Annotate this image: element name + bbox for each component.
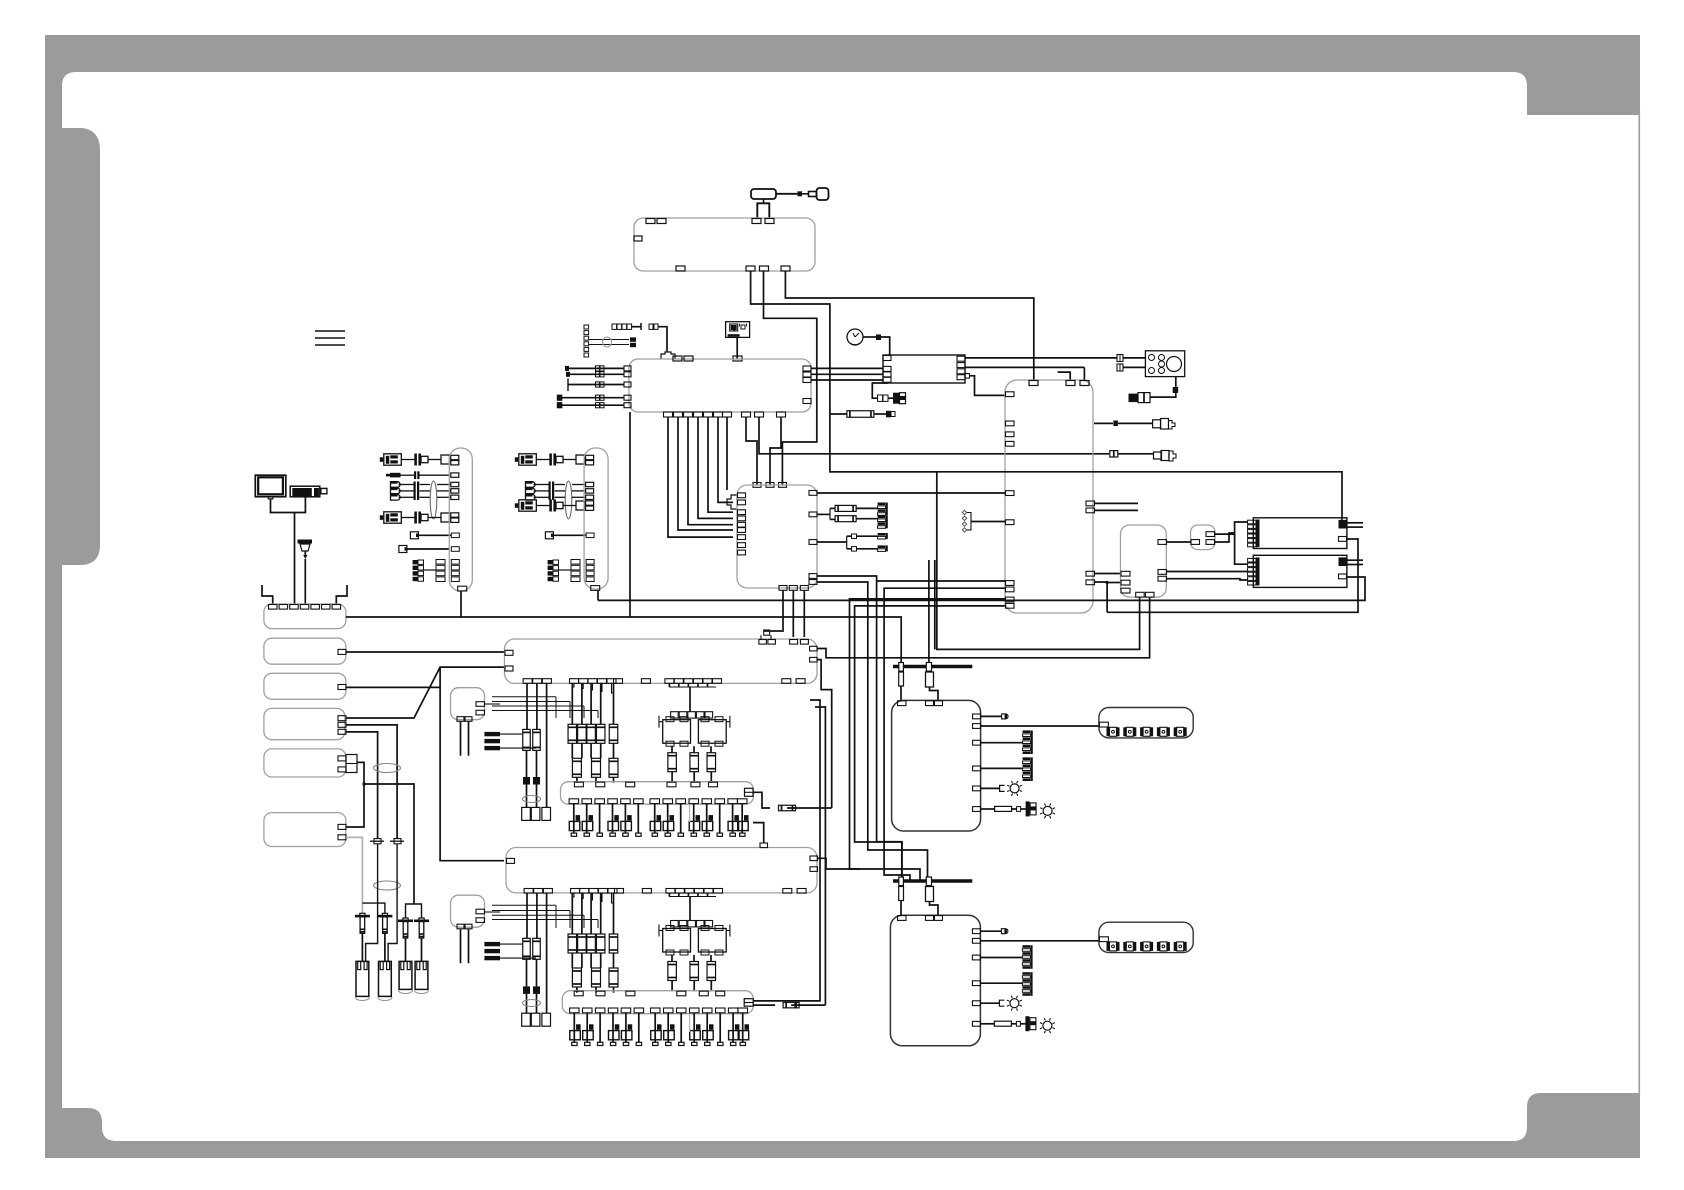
wire B2 to B4 left (718, 417, 733, 502)
pin B6 top-c (790, 640, 798, 645)
pin B4 bottom-2 (789, 586, 797, 591)
pin B1 bottom-b (746, 266, 755, 271)
wire B3 right to B5-1 (1094, 573, 1120, 575)
wire to lamp2 row (981, 808, 995, 810)
black sq (1113, 421, 1118, 427)
pin B14 right (745, 788, 754, 796)
plug J2 r3-3 (526, 495, 536, 501)
foot (740, 833, 745, 836)
plug J1 r3-2 (391, 488, 401, 494)
second stage (572, 758, 581, 777)
inline fuse b (394, 839, 401, 844)
pins B7 bottom (524, 889, 533, 894)
foot (598, 1042, 603, 1045)
bars J1 r3 (414, 482, 416, 501)
B13 legs (460, 929, 462, 963)
pin B2 bottom-2 (674, 412, 683, 417)
pin B8 top-1 (898, 701, 907, 706)
IR emitter chain 2 (382, 913, 387, 917)
pin B7 right-1 (810, 856, 818, 861)
comb connector a (878, 503, 886, 506)
wire filter to keypad (1123, 366, 1145, 368)
pin B6 bottom (598, 679, 607, 684)
foot (653, 1042, 658, 1045)
wire bus600 to S2 (598, 577, 1365, 600)
wire strip J2 rows (515, 457, 519, 462)
switch J2 r5 (545, 532, 553, 539)
pin B4 left (738, 522, 746, 527)
transistor leg (706, 804, 708, 834)
keypad comb 2 (1023, 757, 1031, 760)
wire B2 to B4 left (678, 417, 733, 530)
foot (705, 1042, 710, 1045)
transistor leg (599, 1013, 601, 1043)
sub box B13 (451, 688, 485, 720)
left gray column (45, 35, 62, 1158)
foot (597, 833, 602, 836)
pin B2 bottom-4 (694, 412, 703, 417)
foot (623, 1042, 628, 1045)
driver box b (698, 720, 726, 744)
pin B4 bottom-1 (779, 586, 787, 591)
relay box (1191, 525, 1215, 550)
pin B8 top-3 (935, 701, 943, 706)
foot (717, 833, 722, 836)
pin J1 r7-1 (436, 560, 445, 565)
pin B2 bottom-7 (723, 412, 732, 417)
IC socket strip B15 (562, 991, 753, 1014)
pin B6 bottom (588, 679, 597, 684)
pins B15 top (574, 991, 583, 996)
pin tuner right-d (957, 375, 965, 380)
transistor leg (586, 1013, 588, 1043)
pin B4 bottom-3 (800, 586, 808, 591)
pin J1 r4a (451, 513, 459, 517)
comb header pair (671, 712, 679, 718)
pin B3 left (1006, 421, 1015, 426)
fuse row B15 b (753, 1004, 775, 1006)
wire B2 to tuner c (811, 379, 883, 381)
pin power right-3 (972, 955, 980, 960)
wire tuner to keypad row (965, 357, 1117, 359)
wire J2 bottom to bus600 (597, 590, 599, 600)
wire to comb2 (981, 767, 1023, 769)
pin B6 bottom (542, 679, 551, 684)
DC plug (1153, 420, 1161, 428)
keypad comb 1 (1022, 945, 1030, 948)
tie oval (523, 796, 541, 803)
inline connector pair (596, 366, 600, 371)
cable tie J2 (565, 481, 572, 519)
wire bus612 to S1 (1107, 539, 1358, 612)
cable tie left pair (374, 764, 401, 773)
B13b bundle wires (492, 904, 556, 906)
foot (678, 833, 683, 836)
pin B4 right-3 (809, 540, 817, 545)
pin B13 b2 (465, 717, 472, 722)
resistor column (600, 683, 602, 724)
pin J2 r1b (586, 461, 594, 465)
pin L4 r1 (338, 716, 346, 721)
fuse row B15 a (753, 700, 820, 1001)
switch J1 r5 (410, 532, 418, 539)
LED 4 (1157, 727, 1160, 736)
wire to LED bar (981, 725, 1099, 727)
foot (585, 1042, 590, 1045)
wire B2 to tuner b (811, 373, 883, 375)
wire B3 maze-1 (877, 580, 1006, 582)
wire B1 to bus via x829 (751, 271, 1140, 649)
foot (692, 1042, 697, 1045)
pin B3 left (1006, 597, 1015, 602)
pin B6 bottom (782, 679, 791, 684)
pin B2 right-c (803, 378, 811, 383)
pin B12 top-7 (332, 605, 341, 610)
pin B6 left-1 (505, 650, 513, 655)
pin B2 bottom-10 (777, 412, 786, 417)
connector strip J1 (449, 448, 472, 591)
bottom-left gray tab (45, 1108, 102, 1158)
pin B2 left-e (624, 403, 631, 408)
wire L4r3 (346, 732, 378, 839)
tie oval (523, 1000, 541, 1007)
pin B2 left-c (624, 382, 631, 387)
wire B3 maze-3 (850, 599, 1006, 880)
pin power right-2 (972, 938, 980, 943)
ceramic filter pair (835, 505, 856, 511)
wire B5 to S2 comb (1166, 571, 1247, 573)
pins B14 bottom (569, 799, 579, 804)
pin B6 right-1 (810, 646, 818, 651)
wire B4 maze-b (817, 582, 928, 877)
LED lower 3 (1140, 942, 1143, 951)
pin B5 left-1 (1121, 571, 1130, 576)
inline filter2 (1117, 355, 1123, 362)
wire trunk x440 (440, 667, 504, 861)
3-bar connector (484, 942, 500, 946)
pin power right-1 (972, 929, 980, 934)
block L6 (264, 813, 346, 847)
transistor leg (680, 804, 682, 834)
second stage (572, 968, 581, 987)
wire L3 join (346, 686, 440, 688)
3-bar connector (484, 732, 500, 736)
pin J1 r1b (451, 461, 459, 465)
pin B12 top-3 (290, 605, 299, 610)
wire B3 maze-2 (884, 588, 1005, 881)
pin B12 top-5 (311, 605, 320, 610)
wire IR to B2 (736, 337, 738, 359)
clock sensor (847, 329, 863, 345)
transistor leg (612, 804, 614, 834)
driver box b (698, 929, 726, 953)
pin B1 bottom-c (760, 266, 769, 271)
wire B2 to B4 left (698, 417, 733, 518)
resistor column (590, 683, 592, 724)
wire B2 to B4 left (688, 417, 733, 525)
transistor leg (732, 804, 734, 834)
jig row wire (573, 384, 624, 386)
pin power right-6 (972, 1021, 980, 1026)
bottom rects (522, 1013, 531, 1026)
cap blocks (523, 777, 530, 785)
pin B6 bottom (607, 679, 616, 684)
RF plug (886, 411, 891, 418)
tuner tab (965, 374, 970, 379)
S2 pin comb (1248, 558, 1258, 562)
pin B3 left (1006, 581, 1015, 586)
power block B8 (892, 700, 981, 831)
LED 1 (1107, 727, 1110, 736)
pin J2 r1a (586, 455, 594, 459)
pins B14 top (574, 782, 583, 787)
wire B13b to 3bar (485, 911, 501, 913)
B13a bundle wires (492, 696, 556, 698)
pin tuner left-a (883, 356, 891, 361)
pin L4 r3 (338, 729, 346, 734)
pin B2 left-a (624, 366, 631, 371)
pin B9 top-2 (926, 916, 934, 921)
pin relay right-1 (1206, 532, 1215, 537)
wire L4r3 to chain1 prong (366, 844, 378, 962)
AV plug cluster (878, 395, 883, 401)
pin J1 r7-2 (436, 565, 445, 570)
gray stub a (689, 804, 691, 822)
foot (665, 833, 670, 836)
fuse row B14 (753, 792, 770, 808)
service row wire 2 (562, 404, 624, 406)
wire B6r1 to bus658 (817, 597, 1150, 658)
inline connector pair (596, 372, 600, 377)
pin J2 r3-3 (586, 495, 594, 499)
fuse cap 1 (899, 877, 904, 886)
pin J2 r7-3 (571, 571, 580, 576)
wire diamonds to B3 (971, 521, 1005, 523)
pin B6 right-2 (810, 657, 818, 662)
B6 bottom bends (572, 683, 574, 692)
monitor (255, 475, 285, 497)
pin J2 bottom (591, 586, 600, 591)
wire strip J1 rows (380, 457, 384, 462)
pin B9 top-3 (935, 916, 943, 921)
foot (679, 1042, 684, 1045)
headphone jack cap (1110, 451, 1118, 457)
LED 5 (1174, 727, 1177, 736)
wire B2 to B4 stepped (726, 417, 728, 490)
crystal chain X1 (612, 324, 617, 329)
IR emitter chain 4 (419, 918, 424, 922)
pin J1 r3-2 (451, 489, 459, 493)
pin B6 bottom (713, 679, 722, 684)
wire relay to S1 comb (1215, 522, 1248, 534)
pin B6 top-a (759, 640, 767, 645)
wire B7 comb hang (668, 893, 670, 897)
pin B7 right-2 (810, 867, 818, 872)
pin B2 right-d (803, 399, 811, 404)
pin B3 top-2 (1066, 381, 1075, 386)
foot (572, 1042, 577, 1045)
wire B5 to relay (1166, 541, 1190, 543)
wire drops from box (526, 893, 528, 938)
left gray tab (45, 128, 100, 565)
pin B13 r1 (476, 702, 485, 707)
speaker block S2 (1253, 555, 1347, 587)
standby lamp (1043, 1021, 1052, 1030)
wire B4 pin3 cluster (817, 541, 847, 543)
keypad comb 1 (1023, 730, 1031, 733)
transistor leg (742, 1013, 744, 1043)
drops to resistors (671, 746, 673, 753)
pin B4 right-5 (809, 580, 817, 585)
pin B6 bottom (579, 679, 588, 684)
pin B13 r2 (476, 710, 485, 715)
jungle block B6 (505, 639, 818, 683)
wire L5 to L6 (346, 762, 364, 827)
block L3 (264, 673, 346, 699)
jungle block B7 (506, 848, 817, 893)
wire B6r2 fuse trunk (817, 660, 832, 808)
plug J1 r3-3 (391, 495, 401, 501)
pin B6 top-b (768, 640, 776, 645)
wire B4 bottom to B6 small box (772, 590, 784, 631)
resistor column (581, 893, 583, 934)
wires 3bar to barrels (500, 733, 523, 735)
audio out block B5 (1121, 525, 1167, 597)
pin B3 left (1006, 441, 1015, 446)
pin J2 r4a (586, 501, 594, 505)
pin B2 left-b (624, 372, 631, 377)
wire B3 to B5 pair a (1094, 502, 1138, 504)
pin B7 left top (507, 858, 515, 863)
fusible resistor 2 (926, 672, 934, 687)
pin J1 r1a (451, 455, 459, 459)
pin L6 r1 (338, 824, 346, 829)
transistor leg (624, 804, 626, 834)
wire B2 to B4 left (708, 417, 733, 512)
plug J2 r3-1 (526, 482, 536, 488)
pin J2 r3-1 (586, 482, 594, 486)
pin J1 r7-3 (436, 571, 445, 576)
transistor leg (625, 1013, 627, 1043)
pin B2 bottom-9 (755, 412, 764, 417)
pin B11 left (1099, 937, 1108, 942)
service row wire (562, 397, 624, 399)
wire chain34 U (406, 904, 422, 918)
pin B8 top-2 (926, 701, 934, 706)
pin tuner left-d (883, 377, 891, 382)
driver box a (663, 720, 691, 744)
bars J2 r3 (549, 482, 551, 501)
wire B1 to B3 top (785, 271, 1033, 380)
pin power right-5 (972, 1001, 980, 1006)
camcorder (290, 486, 320, 497)
wire L4r2 (346, 725, 397, 839)
pin B3 left (1006, 392, 1015, 397)
pin tuner right-b (957, 363, 965, 368)
power bus bar (893, 879, 972, 882)
sub micro block B4 (737, 485, 817, 588)
main micro block B2 (629, 359, 811, 412)
LED lower 2 (1123, 942, 1126, 951)
foot (571, 833, 576, 836)
pin B4 right-4 (809, 574, 817, 579)
pin B5 left-3 (1121, 588, 1130, 593)
wire L2 to B6 (346, 651, 504, 653)
pin J1 r6 (451, 547, 459, 552)
drops to resistors (671, 955, 673, 962)
pin J2 r7-1 (571, 560, 580, 565)
foot (691, 833, 696, 836)
pin relay right-2 (1206, 540, 1215, 545)
pin B3 right (1086, 580, 1095, 585)
S1 magnet (1339, 520, 1347, 529)
pin L2 right (338, 649, 346, 654)
pin J1 r3-3 (451, 495, 459, 499)
pin B5 right-3 (1158, 576, 1167, 581)
pin relay left (1191, 540, 1200, 545)
comb connector c (878, 533, 886, 536)
wire B7 right (818, 858, 861, 869)
pin B2 bottom-5 (704, 412, 713, 417)
pin J1 r3-1 (451, 482, 459, 486)
wire keypad drop to bar (928, 560, 930, 663)
block L5 (264, 749, 346, 777)
pin B2 bottom-3 (684, 412, 693, 417)
wire aux left L (262, 585, 273, 604)
pin B3 right (1086, 571, 1095, 576)
wire clock to tuner (863, 336, 876, 338)
foot (704, 833, 709, 836)
wire to lamp2 row (980, 1023, 994, 1025)
pin L6 r2 (338, 835, 346, 840)
wire headphone to B12 (304, 559, 306, 604)
S1 pin comb (1248, 520, 1258, 524)
barrel pair (523, 729, 531, 750)
transistor leg (573, 1013, 575, 1043)
LED bar B10 (1099, 708, 1193, 738)
pin B12 top-4 (300, 605, 309, 610)
wire monitor+cam to B12 (271, 497, 306, 513)
keypad comb 2 (1022, 972, 1030, 975)
resistor column (581, 683, 583, 724)
sensor row wire (566, 373, 624, 375)
foot (718, 1042, 723, 1045)
wire B5 left pin2 (1107, 582, 1120, 584)
pin J1 bottom (458, 586, 467, 591)
wire to lamp1 (980, 1002, 999, 1004)
resistor column (571, 893, 573, 934)
wire tuner to AV plug (872, 383, 888, 398)
power block B9 (890, 915, 980, 1046)
resistor column (590, 893, 592, 934)
transistor leg (637, 804, 639, 834)
connector strip J2 (584, 448, 608, 589)
wire B4 bottom to B6 pin b (803, 590, 805, 637)
pin B5 bottom-1 (1136, 592, 1145, 597)
foot (610, 833, 615, 836)
wire B7 top-a (753, 823, 764, 843)
wire B3 maze-4 (855, 606, 1006, 877)
pin B4 left (738, 500, 746, 505)
foot (636, 1042, 641, 1045)
pin B4 left (738, 510, 746, 515)
plug J1 r3-1 (391, 482, 401, 488)
transistor leg (693, 1013, 695, 1043)
plug J2 r3-2 (526, 488, 536, 494)
front AV block B12 (264, 604, 346, 629)
driver box a (663, 929, 691, 953)
header J1 r7 (413, 560, 418, 564)
